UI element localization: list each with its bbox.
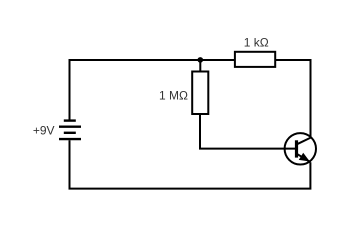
svg-text:1 MΩ: 1 MΩ — [159, 89, 188, 103]
svg-text:1 kΩ: 1 kΩ — [244, 35, 269, 49]
svg-text:+9V: +9V — [33, 123, 55, 137]
